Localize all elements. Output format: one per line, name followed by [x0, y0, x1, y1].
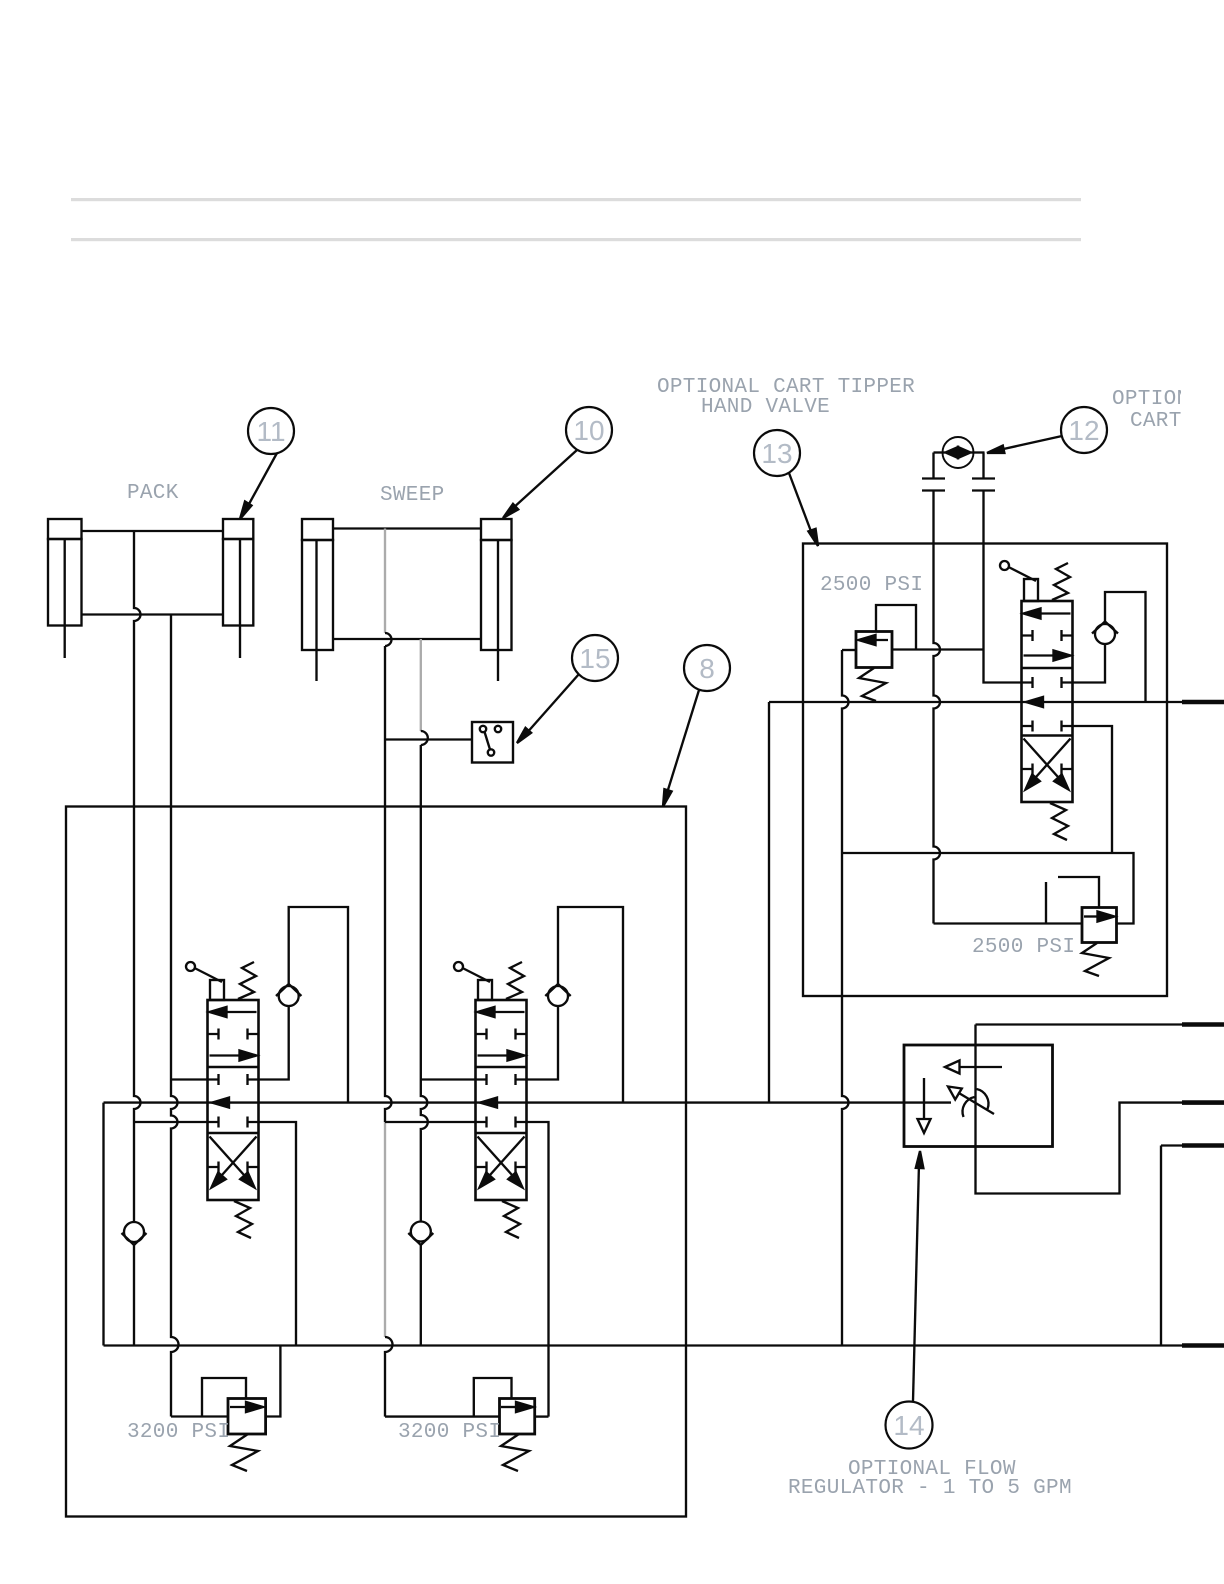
wire V1 check to port	[259, 1006, 289, 1080]
flow regulator restrictor	[963, 1089, 989, 1117]
V3 env1 arrow right	[1024, 651, 1071, 661]
RV3 arrow	[230, 1402, 263, 1412]
wire SWEEP x385 gray lower	[384, 1122, 386, 1337]
balloon 10	[503, 407, 612, 518]
V1 env2 blocked ports bottom	[208, 1117, 259, 1128]
wire PACK rod-side line x134 with hops	[134, 531, 141, 1222]
V1 lever	[186, 962, 224, 1000]
directional valve V1 (PACK) body	[208, 1000, 259, 1200]
wire port y1145	[1161, 1144, 1182, 1146]
relief valve RV2 2500 PSI	[1082, 908, 1117, 943]
wire x1161 drop	[1160, 1146, 1162, 1346]
wire top feed to edge	[976, 1023, 1183, 1025]
wire V3 right lower port	[1073, 726, 1113, 853]
V1 env2 blocked ports top	[208, 1074, 259, 1085]
header rule top	[71, 198, 1081, 201]
wire regulated loop	[976, 1025, 1183, 1194]
cylinder SWEEP left rod	[315, 540, 317, 681]
svg-text:11: 11	[256, 416, 285, 447]
wire tank bus bold end	[1182, 1343, 1224, 1348]
wire V2 check to port	[527, 1006, 559, 1080]
wire motor right leg	[984, 491, 1022, 683]
V3 lever	[1000, 561, 1038, 601]
svg-text:13: 13	[761, 438, 792, 469]
wire bus y702 bold end	[1182, 700, 1224, 705]
check valve on SWEEP line (down seat)	[408, 1222, 433, 1346]
cylinder SWEEP right rod	[497, 540, 499, 681]
RV1 right port	[892, 648, 984, 650]
wire SWEEP bottom manifold	[333, 638, 481, 640]
svg-text:OPTIONAL: OPTIONAL	[1112, 388, 1215, 411]
pressure switch 15	[472, 722, 513, 763]
wire RV1 drop x842	[842, 650, 849, 1346]
wire V2 port A	[421, 1078, 476, 1080]
V1 env1 arrow left	[210, 1007, 257, 1017]
quick disconnect left	[922, 453, 945, 491]
flow regulator adjust arrow	[948, 1087, 994, 1115]
wire V2 tank link	[385, 1121, 476, 1123]
svg-text:CART: CART	[1130, 410, 1182, 433]
wire bus left drop x103	[102, 1103, 104, 1346]
check valve V1 (up seat)	[276, 984, 301, 1006]
label OPTIONAL clipped	[1112, 388, 1215, 411]
balloon 15	[517, 635, 618, 743]
check valve V2 (up seat)	[545, 984, 570, 1006]
V2 env1 blocked ports	[476, 1029, 527, 1040]
RV3 pilot	[202, 1378, 246, 1417]
RV1 spring	[859, 668, 886, 701]
V3 spring top	[1052, 563, 1070, 600]
header rule bottom	[71, 238, 1081, 241]
V2 spring bottom	[502, 1201, 520, 1238]
wire motor left leg	[934, 491, 941, 924]
wire SWEEP x385 hop tank bus to relief	[385, 1337, 393, 1417]
svg-text:REGULATOR - 1 TO 5 GPM: REGULATOR - 1 TO 5 GPM	[788, 1477, 1072, 1500]
RV2 spring	[1082, 943, 1109, 976]
V2 env3 crossed arrows	[476, 1137, 527, 1188]
RV3 left port	[171, 1415, 228, 1417]
svg-text:PACK: PACK	[127, 482, 179, 505]
relief valve RV4 3200 PSI (SWEEP)	[500, 1399, 535, 1435]
V2 env2 blocked ports top	[476, 1074, 527, 1085]
wire top feed bold end	[1182, 1022, 1224, 1027]
RV1 left port	[842, 649, 856, 651]
RV1 pilot	[876, 605, 916, 650]
directional valve V2 (SWEEP) body	[476, 1000, 527, 1200]
wire port y1145 bold end	[1182, 1143, 1224, 1148]
wire return y853	[842, 853, 1134, 924]
flow regulator 14 box	[904, 1045, 1053, 1147]
svg-text:12: 12	[1068, 415, 1099, 446]
balloon 11	[240, 408, 294, 519]
RV4 left port	[385, 1415, 500, 1417]
cylinder PACK right barrel	[223, 519, 253, 626]
V2 env1 arrow left	[478, 1007, 525, 1017]
balloon 12	[987, 407, 1107, 453]
wire RV2 feed y923	[934, 922, 1083, 924]
cylinder PACK right rod	[239, 539, 241, 658]
svg-text:14: 14	[893, 1410, 924, 1441]
wire tank bus y1345	[104, 1344, 1183, 1346]
V2 env2 arrow left on bus	[480, 1098, 497, 1108]
wire V1 port A	[171, 1078, 208, 1080]
wire to pressure switch	[385, 738, 472, 740]
RV1 arrow	[859, 635, 889, 645]
V3 env2 blocked ports top	[1022, 677, 1073, 688]
RV2 pilot	[1058, 877, 1099, 908]
wire V1 check loop	[289, 907, 348, 1103]
wire SWEEP x421 hop over switch wire	[421, 731, 428, 745]
cylinder SWEEP left barrel	[302, 519, 333, 650]
V3 env1 arrow left	[1024, 609, 1071, 619]
V3 env2 blocked ports bottom	[1022, 721, 1073, 732]
RV3 spring	[230, 1434, 258, 1471]
wire PACK top manifold	[82, 530, 224, 532]
svg-text:3200 PSI: 3200 PSI	[398, 1421, 501, 1444]
check valve on PACK line (down seat)	[122, 1222, 147, 1346]
wire bus y702	[769, 701, 1182, 703]
V3 env2 arrow left on bus	[1026, 697, 1043, 707]
wire x769 link	[768, 702, 770, 1103]
RV4 spring	[501, 1434, 529, 1471]
wire PACK base line x171	[171, 615, 179, 1417]
V2 env1 arrow right	[478, 1051, 525, 1061]
wire SWEEP rod-side line x385 gray upper	[384, 529, 386, 634]
wire CV3 to port	[1073, 644, 1106, 683]
wire V2 right drop	[527, 1122, 549, 1417]
V3 spring bottom	[1050, 803, 1068, 840]
relief valve RV3 3200 PSI (PACK)	[228, 1399, 266, 1435]
flow regulator bypass arrow	[945, 1061, 1002, 1074]
wire V2 check loop	[558, 907, 623, 1103]
wire SWEEP top manifold	[333, 527, 481, 529]
V2 lever	[454, 962, 492, 1000]
wire V1 tank link	[134, 1121, 208, 1123]
wire SWEEP x385 hop at manifold	[385, 633, 392, 646]
RV4 arrow	[501, 1402, 533, 1412]
wire V1 right drop	[259, 1122, 297, 1346]
RV3 outlet	[266, 1346, 281, 1417]
wire SWEEP base line x421 gray	[420, 639, 422, 731]
svg-text:2500 PSI: 2500 PSI	[972, 936, 1075, 959]
V1 env1 blocked ports	[208, 1029, 259, 1040]
balloon 13	[754, 430, 818, 546]
svg-text:15: 15	[579, 643, 610, 674]
svg-text:HAND VALVE: HAND VALVE	[701, 396, 830, 419]
wire regulated bold end	[1182, 1100, 1224, 1105]
wire CV3 loop top	[1105, 592, 1146, 702]
V3 env1 blocked ports	[1022, 630, 1073, 641]
check valve CV3 (up seat)	[1092, 622, 1118, 645]
balloon 8	[663, 645, 730, 807]
V1 spring bottom	[234, 1201, 252, 1238]
RV4 outlet	[535, 1415, 549, 1417]
hand valve V3 body	[1022, 601, 1073, 802]
svg-text:2500 PSI: 2500 PSI	[820, 574, 923, 597]
V2 env2 blocked ports bottom	[476, 1117, 527, 1128]
svg-text:3200 PSI: 3200 PSI	[127, 1421, 230, 1444]
quick disconnect right	[972, 453, 995, 491]
wire SWEEP x421 lower	[421, 745, 428, 1222]
valve bank box 8	[66, 807, 686, 1517]
V3 env3 crossed arrows	[1022, 739, 1073, 790]
hand valve box 13	[803, 544, 1167, 997]
RV2 pilot stub	[1045, 882, 1047, 924]
wire PACK bottom manifold	[82, 613, 224, 615]
cylinder PACK left rod	[64, 539, 66, 658]
cylinder PACK left barrel	[48, 519, 82, 626]
svg-text:SWEEP: SWEEP	[380, 484, 445, 507]
balloon 14	[886, 1151, 933, 1449]
V1 env1 arrow right	[210, 1051, 257, 1061]
RV4 pilot	[474, 1378, 512, 1417]
motor 12	[934, 437, 985, 468]
relief valve RV1 2500 PSI	[856, 632, 892, 668]
svg-text:10: 10	[573, 415, 604, 446]
V1 spring top	[238, 962, 256, 999]
RV2 arrow	[1084, 912, 1115, 922]
wire SWEEP x385 to switch tee and bus hop	[385, 646, 392, 1122]
svg-text:8: 8	[699, 653, 715, 684]
V1 env2 arrow left on bus	[212, 1098, 229, 1108]
V1 env3 crossed arrows	[208, 1137, 259, 1188]
cylinder SWEEP right barrel	[481, 519, 512, 650]
wire pressure bus y1102	[104, 1101, 952, 1103]
flow regulator down arrow	[918, 1078, 931, 1133]
V2 spring top	[506, 962, 524, 999]
